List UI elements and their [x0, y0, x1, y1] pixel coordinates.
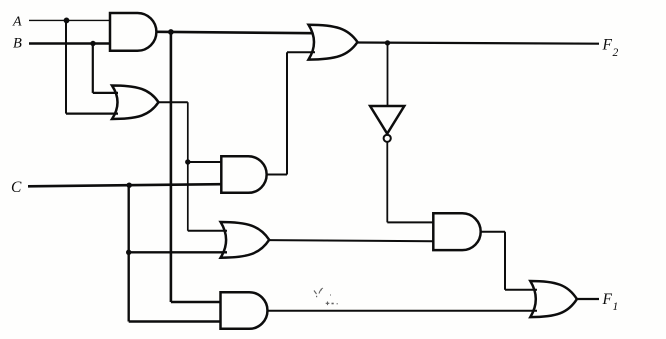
svg-text:1: 1: [613, 301, 619, 313]
svg-text:2: 2: [613, 47, 619, 59]
svg-text:F: F: [602, 37, 613, 54]
svg-text:F: F: [602, 291, 613, 308]
svg-text:B: B: [13, 36, 22, 52]
svg-text:A: A: [12, 15, 22, 30]
svg-text:C: C: [11, 179, 22, 196]
